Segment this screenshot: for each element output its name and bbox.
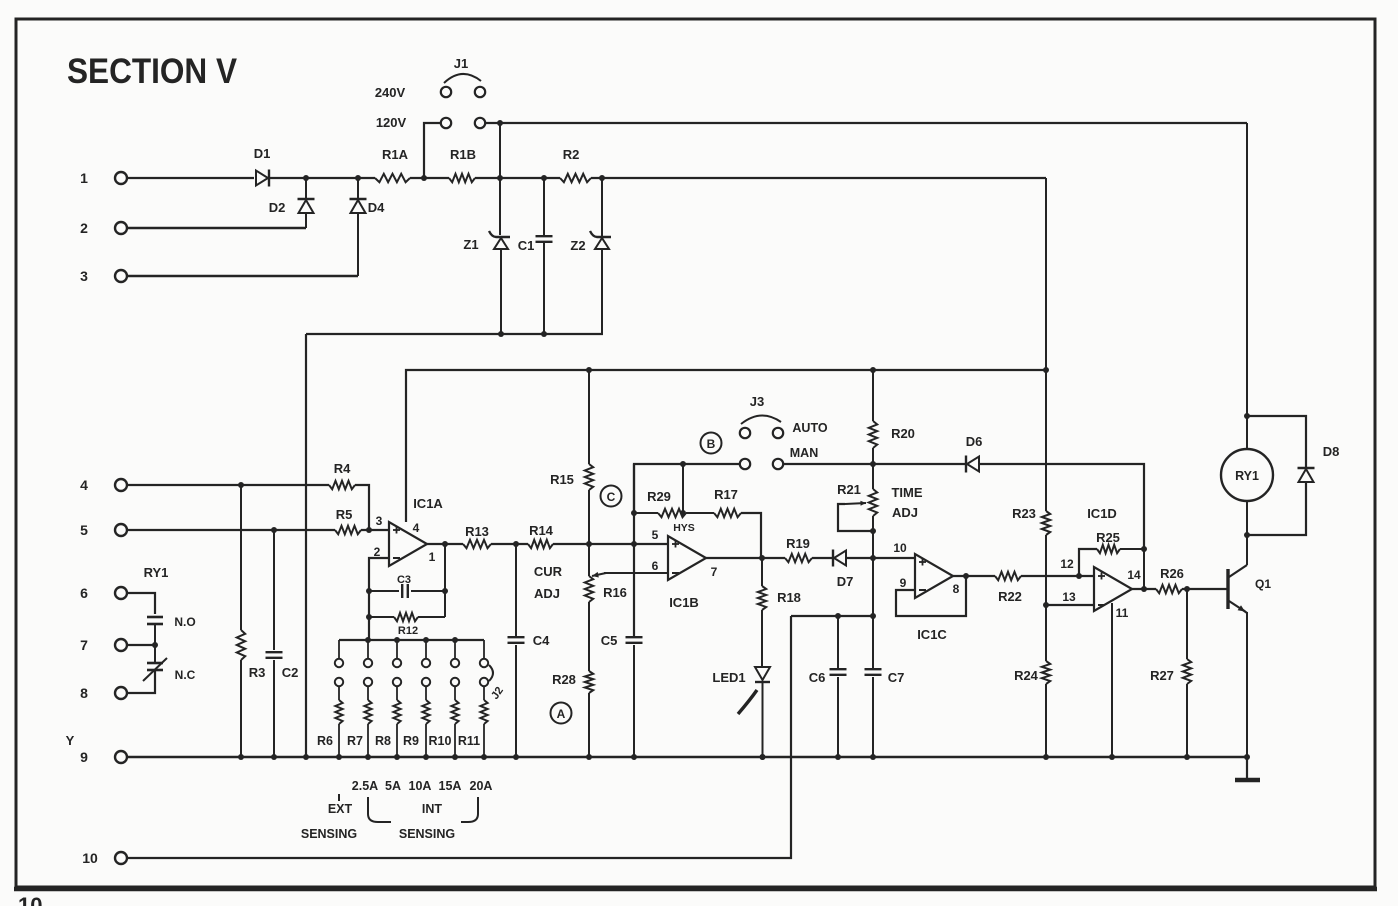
wire terminal7 line	[127, 644, 155, 646]
svg-text:HYS: HYS	[673, 522, 695, 534]
svg-text:EXT: EXT	[328, 802, 353, 816]
svg-text:2.5A: 2.5A	[352, 779, 378, 793]
resistor R5	[335, 507, 361, 534]
wire 120V left pin down to main	[424, 123, 440, 178]
svg-text:INT: INT	[422, 802, 443, 816]
label R8	[375, 734, 391, 748]
svg-text:R26: R26	[1160, 566, 1184, 581]
svg-text:R14: R14	[529, 523, 554, 538]
wire R13 to R14	[491, 543, 528, 545]
terminal 5	[80, 522, 127, 538]
svg-text:RY1: RY1	[1235, 469, 1259, 483]
svg-text:D4: D4	[368, 200, 385, 215]
label INT	[422, 802, 443, 816]
R16 wiper	[592, 572, 668, 578]
wire V+ mid rail	[406, 370, 1046, 522]
jumper J1 120V pins	[441, 118, 485, 128]
node R4-R5 join	[366, 527, 372, 533]
svg-text:ADJ: ADJ	[534, 586, 560, 601]
jumper J1 label	[454, 56, 468, 71]
terminal 10	[82, 850, 127, 866]
svg-text:5: 5	[652, 528, 659, 542]
node rail C7	[870, 754, 876, 760]
node R27 top	[1184, 586, 1190, 592]
node C1 top	[541, 175, 547, 181]
diode D2	[269, 178, 315, 228]
node fb join	[963, 573, 969, 579]
label 15A	[439, 779, 462, 793]
resistor R28	[552, 671, 593, 757]
svg-text:13: 13	[1062, 590, 1076, 604]
node rail C5	[631, 754, 637, 760]
svg-text:LED1: LED1	[712, 670, 745, 685]
node divider	[586, 541, 592, 547]
node R15 top	[586, 367, 592, 373]
relay coil RY1	[1221, 449, 1273, 501]
svg-text:IC1B: IC1B	[669, 595, 699, 610]
node timing	[870, 555, 876, 561]
label MAN	[790, 446, 818, 460]
node J2 bus 397	[394, 637, 400, 643]
node C1 bottom	[541, 331, 547, 337]
svg-text:240V: 240V	[375, 85, 406, 100]
svg-text:15A: 15A	[439, 779, 462, 793]
svg-text:R11: R11	[458, 734, 480, 748]
svg-text:14: 14	[1127, 568, 1141, 582]
svg-text:120V: 120V	[376, 115, 407, 130]
wire RY1 top	[1246, 123, 1248, 449]
wire terminal2 to D2	[127, 227, 306, 229]
wire RY1 bottom	[1246, 501, 1248, 535]
svg-text:3: 3	[376, 514, 383, 528]
wire R4 down to R5 line	[355, 485, 369, 530]
node C7 join	[870, 613, 876, 619]
svg-text:3: 3	[80, 268, 88, 284]
resistor R20	[869, 370, 915, 464]
label 240V	[375, 85, 406, 100]
svg-text:TIME: TIME	[891, 485, 922, 500]
svg-text:10A: 10A	[409, 779, 432, 793]
node output	[1141, 586, 1147, 592]
node Z1 top	[497, 175, 503, 181]
label INT SENSING	[399, 827, 455, 841]
jumper J2 label	[489, 685, 506, 702]
svg-text:Q1: Q1	[1255, 577, 1271, 591]
zener Z2	[570, 178, 611, 334]
svg-text:R1B: R1B	[450, 147, 476, 162]
svg-text:7: 7	[711, 565, 718, 579]
svg-text:C: C	[607, 490, 616, 504]
resistor R17	[714, 487, 741, 517]
node rail R28	[586, 754, 592, 760]
potentiometer R16	[585, 544, 627, 671]
jumper J2 column 4	[422, 640, 430, 757]
terminal 4	[80, 477, 127, 493]
resistor R12	[369, 613, 445, 637]
svg-text:11: 11	[1116, 606, 1129, 620]
svg-text:R16: R16	[603, 585, 627, 600]
wire R29 junction up	[682, 464, 684, 513]
label CUR ADJ	[534, 564, 563, 601]
node rail R8	[394, 754, 400, 760]
resistor R19	[785, 536, 812, 562]
node C4 top	[513, 541, 519, 547]
pin 3 label	[376, 514, 383, 528]
wire D6 to pin14 column	[980, 464, 1144, 549]
node Z2 top	[599, 175, 605, 181]
op-amp IC1A	[389, 496, 443, 566]
label R7	[347, 734, 363, 748]
node rail LED	[760, 754, 766, 760]
jumper J3 bottom pins	[740, 459, 783, 469]
node rail pin11	[1109, 754, 1115, 760]
terminal 7	[80, 637, 127, 653]
wire terminal10 line	[127, 616, 791, 858]
node rail R6	[336, 754, 342, 760]
svg-text:R13: R13	[465, 524, 489, 539]
wire fb right leg	[444, 544, 446, 617]
svg-text:4: 4	[80, 477, 88, 493]
label AUTO	[792, 421, 827, 435]
svg-text:R18: R18	[777, 590, 801, 605]
label 20A	[470, 779, 493, 793]
node R3 top	[238, 482, 244, 488]
diode D7	[833, 550, 853, 590]
svg-text:N.C: N.C	[175, 668, 196, 682]
capacitor C2	[266, 530, 299, 757]
jumper J2 arc	[489, 665, 493, 681]
svg-text:C5: C5	[601, 633, 618, 648]
relay RY1 contacts label	[144, 565, 169, 580]
ground	[1235, 757, 1260, 780]
wire pin13	[1046, 604, 1094, 606]
svg-text:R23: R23	[1012, 506, 1036, 521]
wire IC1A pin2 leg	[369, 558, 389, 640]
wire R1B to C1	[475, 177, 560, 179]
wire R1A to R1B	[410, 177, 449, 179]
svg-text:J1: J1	[454, 56, 468, 71]
wire terminal4 line	[127, 484, 329, 486]
svg-text:R27: R27	[1150, 668, 1174, 683]
resistor R18	[758, 558, 801, 666]
resistor R13	[463, 524, 491, 548]
label R10	[429, 734, 452, 748]
wire emitter down	[1246, 612, 1248, 757]
wire terminal3 to D4	[127, 275, 358, 277]
svg-text:C7: C7	[888, 670, 905, 685]
transistor Q1	[1228, 565, 1271, 613]
svg-text:R9: R9	[403, 734, 419, 748]
wire D1 to R1A	[270, 177, 375, 179]
svg-text:D1: D1	[254, 146, 271, 161]
zener Z1	[463, 231, 510, 334]
resistor R2	[560, 147, 591, 182]
wire MAN from J3 corner	[634, 464, 740, 513]
svg-text:R2: R2	[563, 147, 580, 162]
node R25 drop	[1076, 573, 1082, 579]
capacitor C3	[369, 574, 445, 598]
node J2 bus 426	[423, 637, 429, 643]
node R12 left	[366, 614, 372, 620]
node C3 right	[442, 588, 448, 594]
label EXT SENSING	[301, 827, 357, 841]
node rail R27	[1184, 754, 1190, 760]
svg-text:10: 10	[82, 850, 98, 866]
svg-text:J3: J3	[750, 394, 764, 409]
svg-text:R15: R15	[550, 472, 574, 487]
potentiometer R21	[837, 464, 877, 558]
wire MAN line right	[783, 463, 966, 465]
LED LED1	[712, 667, 770, 757]
resistor R1A	[375, 147, 410, 182]
terminal 6	[80, 585, 127, 601]
svg-text:R28: R28	[552, 672, 576, 687]
svg-text:R8: R8	[375, 734, 391, 748]
svg-text:CUR: CUR	[534, 564, 563, 579]
capacitor C7	[865, 616, 905, 757]
node pin13	[1043, 602, 1049, 608]
label R9	[403, 734, 419, 748]
jumper J2 column 3	[393, 640, 401, 757]
svg-text:C2: C2	[282, 665, 299, 680]
resistor R14	[528, 523, 554, 548]
svg-text:5: 5	[80, 522, 88, 538]
pin 1 label	[429, 550, 436, 564]
svg-text:1: 1	[429, 550, 436, 564]
wire R26 to Q1	[1182, 588, 1228, 590]
jumper J2 column 5	[451, 640, 459, 757]
svg-text:R24: R24	[1014, 668, 1039, 683]
svg-text:R4: R4	[334, 461, 351, 476]
svg-text:SENSING: SENSING	[399, 827, 455, 841]
resistor R23	[1012, 506, 1050, 605]
op-amp IC1D	[1087, 506, 1132, 611]
svg-text:SENSING: SENSING	[301, 827, 357, 841]
jumper J2 column 1	[335, 640, 343, 757]
svg-text:R3: R3	[249, 665, 266, 680]
label R6	[317, 734, 333, 748]
node fb output	[442, 541, 448, 547]
resistor R29	[634, 489, 686, 517]
wire pin11 down	[1111, 603, 1113, 757]
resistor R26	[1156, 566, 1184, 593]
wire zener ground bus	[306, 333, 603, 335]
wire collector	[1246, 535, 1248, 565]
svg-text:20A: 20A	[470, 779, 493, 793]
svg-text:4: 4	[413, 521, 420, 535]
node rail R7	[365, 754, 371, 760]
node R21 loop	[870, 528, 876, 534]
svg-text:AUTO: AUTO	[792, 421, 827, 435]
node rail R24	[1043, 754, 1049, 760]
svg-text:D7: D7	[837, 574, 854, 589]
node rail R9	[423, 754, 429, 760]
node LED1 bottom	[760, 754, 766, 760]
svg-text:D8: D8	[1323, 444, 1340, 459]
wire D7 to IC1C	[847, 557, 915, 559]
terminal 2	[80, 220, 127, 236]
wire R19 to D7	[812, 557, 833, 559]
svg-text:R29: R29	[647, 489, 671, 504]
node R29 left	[631, 510, 637, 516]
node rail R10	[452, 754, 458, 760]
svg-text:IC1D: IC1D	[1087, 506, 1117, 521]
svg-text:6: 6	[80, 585, 88, 601]
svg-text:6: 6	[652, 559, 659, 573]
svg-text:R17: R17	[714, 487, 738, 502]
svg-text:N.O: N.O	[174, 615, 195, 629]
op-amp IC1C	[915, 554, 953, 642]
jumper J2 column 6	[480, 640, 488, 757]
node R18 top	[759, 555, 765, 561]
node 120V bus	[497, 120, 503, 126]
pin 13 label	[1062, 590, 1076, 604]
wire pin14 column	[1143, 549, 1145, 589]
svg-text:IC1C: IC1C	[917, 627, 947, 642]
node Z1 bottom	[498, 331, 504, 337]
svg-text:D2: D2	[269, 200, 286, 215]
page number 10	[18, 893, 42, 906]
svg-text:Y: Y	[66, 733, 75, 748]
svg-text:C1: C1	[518, 238, 535, 253]
jumper J1 240V pins	[441, 87, 485, 97]
svg-text:B: B	[707, 437, 716, 451]
label 5A	[385, 779, 401, 793]
wire N.C to terminal8	[127, 670, 155, 693]
node RY1 bottom	[1244, 532, 1250, 538]
jumper J2 bus	[339, 639, 484, 641]
resistor R1B	[449, 147, 476, 182]
svg-text:10: 10	[18, 893, 42, 906]
wire 120V node down to Z1	[499, 123, 501, 235]
svg-text:12: 12	[1060, 557, 1074, 571]
node rail R3	[238, 754, 244, 760]
pin 8 label	[953, 582, 960, 596]
terminal 3	[80, 268, 127, 284]
svg-text:C3: C3	[397, 574, 411, 586]
wire terminal6 to contact	[127, 593, 155, 614]
terminal 9	[80, 749, 127, 765]
wire C6C7 bus	[791, 615, 873, 617]
wire R17 corner	[741, 513, 761, 558]
pin 4 label	[413, 521, 420, 535]
svg-text:7: 7	[80, 637, 88, 653]
diode D8	[1247, 416, 1339, 535]
R21 wiper loop	[838, 501, 873, 531]
node contact-7	[152, 642, 158, 648]
node RY1 top	[1244, 413, 1250, 419]
resistor R24	[1014, 605, 1050, 757]
node B	[701, 433, 722, 454]
svg-text:R12: R12	[398, 625, 418, 637]
jumper J1 arc	[444, 74, 481, 83]
EXT tick	[338, 794, 340, 801]
svg-text:R5: R5	[336, 507, 353, 522]
terminal 1	[80, 170, 127, 186]
node rail C6	[835, 754, 841, 760]
terminal 8	[80, 685, 127, 701]
node rail x306	[303, 754, 309, 760]
capacitor C6	[809, 616, 847, 757]
resistor R3	[237, 485, 266, 757]
svg-text:Z1: Z1	[463, 237, 478, 252]
wire 120V right pin to RY1 column	[486, 122, 1247, 124]
svg-text:1: 1	[80, 170, 88, 186]
title SECTION V	[67, 52, 238, 91]
node A	[551, 703, 572, 724]
contact N.C	[143, 645, 196, 682]
label EXT	[328, 802, 353, 816]
svg-text:MAN: MAN	[790, 446, 818, 460]
node R25 right	[1141, 546, 1147, 552]
LED1 arrow	[738, 690, 757, 714]
svg-text:2: 2	[80, 220, 88, 236]
jumper J3 top pins	[740, 428, 783, 438]
label 10A	[409, 779, 432, 793]
svg-text:9: 9	[900, 576, 907, 590]
node C3 left	[366, 588, 372, 594]
wire ground rail	[127, 756, 1247, 758]
svg-text:10: 10	[893, 541, 907, 555]
wire R14 to divider	[553, 543, 589, 545]
svg-text:IC1A: IC1A	[413, 496, 443, 511]
node 120V left leg	[421, 175, 427, 181]
node mid rail right	[1043, 367, 1049, 373]
svg-text:R6: R6	[317, 734, 333, 748]
svg-text:5A: 5A	[385, 779, 401, 793]
pin 14 label	[1127, 568, 1141, 582]
pin 7 label	[711, 565, 718, 579]
pin 10 label	[893, 541, 907, 555]
diode D6	[966, 434, 983, 473]
wire R29 to R17	[686, 512, 714, 514]
svg-text:R1A: R1A	[382, 147, 409, 162]
jumper J2 column 2	[364, 640, 372, 757]
node J2 bus 455	[452, 637, 458, 643]
op-amp IC1B	[668, 536, 706, 610]
capacitor C4	[508, 544, 551, 757]
label HYS	[673, 522, 695, 534]
pin 11 label	[1116, 606, 1129, 620]
INT bracket	[368, 797, 478, 822]
diode D1	[254, 146, 271, 187]
resistor R15	[550, 370, 593, 544]
capacitor C1	[518, 178, 553, 334]
node rail R11	[481, 754, 487, 760]
svg-text:9: 9	[80, 749, 88, 765]
wire R5 to IC1A pin3	[361, 529, 389, 531]
asterisk mark above terminal 9	[66, 733, 75, 748]
wire timing node down	[872, 558, 874, 616]
svg-text:8: 8	[953, 582, 960, 596]
wire IC1B output	[706, 557, 785, 559]
svg-text:A: A	[557, 707, 566, 721]
svg-text:SECTION V: SECTION V	[67, 52, 238, 91]
node rail Q1e	[1244, 754, 1250, 760]
label 2.5A	[352, 779, 378, 793]
wire V+ right column	[1045, 178, 1047, 511]
node C6 top	[835, 613, 841, 619]
svg-text:C6: C6	[809, 670, 826, 685]
label R11	[458, 734, 480, 748]
label 120V	[376, 115, 407, 130]
svg-text:D6: D6	[966, 434, 983, 449]
svg-text:ADJ: ADJ	[892, 505, 918, 520]
resistor R22	[995, 572, 1022, 604]
capacitor C5	[601, 633, 643, 757]
resistor R25	[1079, 530, 1144, 576]
svg-text:RY1: RY1	[144, 565, 169, 580]
